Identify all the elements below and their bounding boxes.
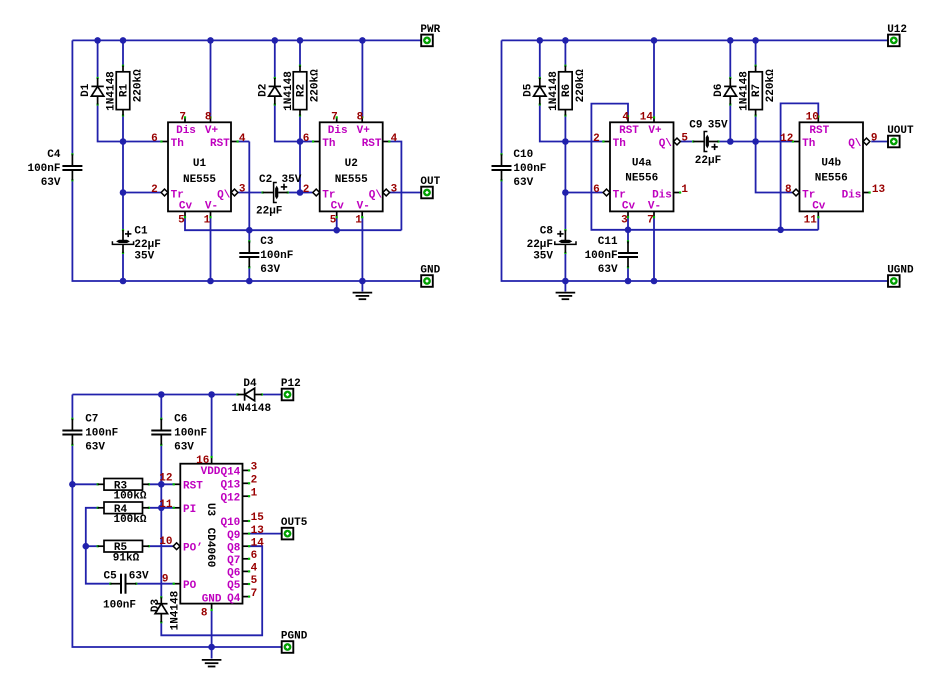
capacitor C2 (262, 183, 289, 203)
svg-text:7: 7 (647, 215, 654, 227)
wire VDD top (72, 394, 237, 396)
svg-text:3: 3 (251, 462, 258, 474)
op-amp U4a NE556 (602, 115, 681, 218)
wire to ground symbol PGND (211, 647, 213, 659)
svg-text:63V: 63V (598, 264, 618, 276)
wire C10 top (501, 40, 503, 154)
svg-text:12: 12 (780, 133, 793, 145)
svg-text:OUT5: OUT5 (281, 517, 308, 529)
svg-text:Q5: Q5 (227, 580, 241, 592)
svg-text:Dis: Dis (328, 125, 348, 137)
junction (727, 138, 734, 145)
capacitor C5 (103, 570, 149, 611)
svg-text:PWR: PWR (420, 24, 440, 36)
op-amp U2 NE555 pin Q diamond (383, 189, 390, 196)
svg-text:RST: RST (183, 481, 203, 493)
junction (297, 189, 304, 196)
connector pad OUT5 (281, 517, 308, 539)
junction (537, 37, 544, 44)
svg-text:3: 3 (621, 215, 628, 227)
wire D2 to Th node U2 (275, 105, 300, 142)
resistor R7 (749, 65, 777, 117)
junction (752, 37, 759, 44)
svg-text:Q6: Q6 (227, 568, 240, 580)
svg-text:63V: 63V (85, 442, 105, 454)
svg-text:C10: C10 (513, 149, 533, 161)
wire C7 top (71, 395, 73, 421)
op-amp U4b NE556 pin Tr diamond (793, 189, 800, 196)
U3 pin numbers (159, 455, 264, 619)
op-amp U4b NE556 pin Q diamond (863, 138, 870, 145)
svg-text:63V: 63V (260, 264, 280, 276)
svg-text:10: 10 (159, 536, 172, 548)
svg-text:D6: D6 (713, 84, 725, 97)
wire R6 bottom (564, 116, 566, 142)
wire C1 to GND bus (122, 253, 124, 281)
svg-text:4: 4 (251, 563, 258, 575)
capacitor C4 (27, 149, 82, 189)
svg-text:Cv: Cv (812, 200, 826, 212)
svg-text:D1: D1 (80, 83, 92, 97)
svg-text:22µF: 22µF (256, 206, 282, 218)
svg-text:U2: U2 (345, 158, 358, 170)
svg-text:PI: PI (183, 504, 196, 516)
svg-text:8: 8 (205, 111, 212, 123)
svg-text:UGND: UGND (887, 264, 914, 276)
wire R5 to PO' (148, 545, 173, 547)
wire C2 to node (288, 192, 300, 194)
svg-text:1N4148: 1N4148 (231, 403, 271, 415)
wire D6 bottom (729, 105, 731, 142)
svg-text:4: 4 (239, 133, 246, 145)
diode D3 (150, 590, 182, 630)
op-amp U1 NE555 pin names (171, 125, 231, 213)
junction (158, 391, 165, 398)
resistor R4 (97, 502, 150, 526)
wire node Th U4a (565, 141, 603, 143)
svg-text:4: 4 (622, 111, 629, 123)
junction (120, 138, 127, 145)
wire to ground symbol UGND (564, 281, 566, 292)
svg-text:Th: Th (171, 138, 184, 150)
svg-text:8: 8 (201, 607, 208, 619)
op-amp U2 NE555 (312, 116, 390, 218)
wire V+ U1 (210, 40, 212, 117)
svg-text:1: 1 (204, 215, 211, 227)
op-amp U4a NE556 pin Tr diamond (603, 189, 610, 196)
svg-text:V+: V+ (357, 125, 371, 137)
svg-text:6: 6 (251, 550, 258, 562)
capacitor C10 (492, 149, 547, 189)
junction (120, 37, 127, 44)
svg-text:C1: C1 (134, 226, 148, 238)
resistor R5 (97, 540, 150, 564)
wire D4 to P12 pad (263, 394, 282, 396)
svg-text:NE556: NE556 (815, 173, 848, 185)
junction (272, 37, 279, 44)
junction (94, 37, 101, 44)
op-amp U4a NE556 value labels (625, 157, 658, 184)
diode D6 (713, 71, 750, 111)
junction (246, 278, 253, 285)
svg-text:NE555: NE555 (183, 174, 216, 186)
svg-text:9: 9 (162, 574, 169, 586)
svg-text:220kΩ: 220kΩ (765, 69, 777, 102)
wire C11 bottom (627, 268, 629, 282)
svg-text:U3: U3 (204, 503, 216, 517)
svg-text:2: 2 (151, 184, 158, 196)
svg-text:100nF: 100nF (85, 428, 118, 440)
junction (297, 138, 304, 145)
svg-text:13: 13 (251, 525, 265, 537)
svg-text:PGND: PGND (281, 630, 308, 642)
op-amp U1 NE555 pin numbers (151, 111, 246, 226)
svg-text:R6: R6 (561, 84, 573, 97)
svg-text:1: 1 (355, 215, 362, 227)
junction (752, 138, 759, 145)
wire Q U4a to C9 (681, 141, 694, 143)
svg-text:P12: P12 (281, 378, 301, 390)
svg-text:NE556: NE556 (625, 173, 658, 185)
wire D6 top (729, 40, 731, 78)
wire UGND bus (502, 180, 888, 281)
svg-text:U1: U1 (193, 158, 207, 170)
svg-text:Q\: Q\ (217, 189, 231, 201)
op-amp U4b NE556 (792, 115, 871, 218)
wire V+ U2 (361, 40, 363, 117)
junction (562, 37, 569, 44)
svg-text:C2: C2 (259, 174, 272, 186)
wire node Tr U4b (756, 142, 793, 193)
svg-text:7: 7 (251, 588, 258, 600)
svg-text:UOUT: UOUT (887, 125, 914, 137)
diode D5 (522, 71, 559, 111)
svg-text:VDD: VDD (201, 466, 221, 478)
svg-text:C8: C8 (540, 226, 554, 238)
svg-text:V-: V- (648, 200, 661, 212)
wire C8 top (564, 193, 566, 230)
wire R1 top (122, 40, 124, 65)
svg-text:C5: C5 (104, 570, 118, 582)
wire R5 left (86, 545, 98, 547)
svg-text:Q7: Q7 (227, 555, 240, 567)
svg-text:22µF: 22µF (695, 155, 721, 167)
svg-text:C9: C9 (689, 119, 702, 131)
wire UOUT net (871, 141, 887, 143)
wire D3 to Q8 (161, 546, 262, 635)
svg-text:35V: 35V (134, 251, 154, 263)
svg-text:100nF: 100nF (103, 600, 136, 612)
capacitor C9 (692, 132, 719, 152)
svg-text:D2: D2 (257, 84, 269, 97)
junction (246, 227, 253, 234)
wire node Th U2 (300, 141, 313, 143)
op-amp U1 NE555 pin Tr diamond (161, 189, 168, 196)
svg-text:R7: R7 (751, 84, 763, 97)
svg-text:7: 7 (179, 111, 186, 123)
svg-text:100nF: 100nF (585, 250, 618, 262)
junction (562, 189, 569, 196)
wire C8 bottom (564, 253, 566, 281)
wire Cv U4b down (817, 217, 819, 230)
connector pad PGND (281, 630, 308, 652)
capacitor C3 (239, 236, 293, 276)
svg-text:3: 3 (391, 183, 398, 195)
junction (158, 505, 165, 512)
wire U12 bus (502, 39, 888, 41)
svg-text:D5: D5 (522, 83, 534, 97)
junction (651, 278, 658, 285)
svg-text:3: 3 (239, 183, 246, 195)
svg-text:100kΩ: 100kΩ (113, 491, 146, 503)
wire R2 bottom (299, 116, 301, 193)
svg-text:100nF: 100nF (27, 163, 60, 175)
svg-text:Q9: Q9 (227, 530, 240, 542)
op-amp U1 NE555 (160, 116, 238, 218)
svg-text:Dis: Dis (842, 189, 862, 201)
wire VDD pin16 (211, 395, 213, 458)
svg-text:C3: C3 (260, 236, 274, 248)
wire node Tr U1 (123, 192, 161, 194)
junction (120, 278, 127, 285)
svg-text:Th: Th (802, 138, 815, 150)
junction (207, 37, 214, 44)
svg-text:U4a: U4a (632, 157, 652, 169)
svg-text:Q4: Q4 (227, 593, 241, 605)
svg-text:D3: D3 (150, 599, 162, 613)
svg-text:6: 6 (303, 133, 310, 145)
diode D1 (80, 71, 117, 111)
op-amp U4a NE556 pin names (613, 125, 673, 213)
svg-text:11: 11 (804, 215, 818, 227)
U3 value labels (204, 503, 216, 567)
op-amp U4a NE556 pin numbers (593, 111, 688, 226)
op-amp U4b NE556 pin numbers (780, 111, 885, 226)
svg-text:100nF: 100nF (260, 250, 293, 262)
junction (359, 37, 366, 44)
wire R2 top (299, 40, 301, 65)
junction (359, 278, 366, 285)
svg-text:12: 12 (159, 473, 172, 485)
wire Cv/RST mid bus (185, 217, 401, 230)
wire C3 bottom (248, 268, 250, 282)
wire OUT net (390, 192, 421, 194)
wire R4 to PI (148, 507, 174, 509)
svg-text:D4: D4 (243, 378, 257, 390)
wire R6 top (564, 40, 566, 65)
junction (333, 227, 340, 234)
wire node Th U1 (123, 141, 161, 143)
svg-text:C7: C7 (85, 414, 98, 426)
svg-text:C11: C11 (598, 236, 618, 248)
wire GND bus (72, 180, 420, 281)
resistor R1 (116, 65, 144, 117)
wire R7 top (755, 40, 757, 65)
wire R3 left (72, 483, 97, 485)
capacitor C11 (585, 236, 638, 276)
wire D1 top (97, 40, 99, 78)
wire D1 to Th node (98, 105, 123, 142)
svg-text:220kΩ: 220kΩ (132, 69, 144, 102)
svg-text:V+: V+ (205, 125, 219, 137)
svg-text:Q13: Q13 (220, 480, 240, 492)
svg-text:35V: 35V (708, 119, 728, 131)
wire node Tr U2 (300, 192, 313, 194)
svg-text:Q10: Q10 (220, 517, 240, 529)
wire V- U2 to GND bus (361, 217, 363, 281)
wire C6 top (160, 395, 162, 421)
junction (69, 481, 76, 488)
svg-text:35V: 35V (533, 251, 553, 263)
svg-text:5: 5 (251, 575, 258, 587)
svg-text:RST: RST (809, 125, 829, 137)
wire RST U2 down (389, 142, 402, 231)
op-amp U2 NE555 value labels (335, 158, 368, 186)
wire RST U1 stub (237, 141, 249, 143)
svg-text:2: 2 (251, 475, 258, 487)
svg-text:6: 6 (593, 184, 600, 196)
svg-text:220kΩ: 220kΩ (309, 69, 321, 102)
junction (208, 644, 215, 651)
wire RST U1 down (248, 142, 250, 231)
svg-text:5: 5 (330, 215, 337, 227)
svg-text:Dis: Dis (652, 189, 672, 201)
U3 pin PO' diamond (173, 543, 180, 550)
op-amp U2 NE555 pin names (322, 125, 382, 213)
svg-text:11: 11 (159, 499, 173, 511)
connector pad GND (420, 264, 440, 286)
junction (120, 189, 127, 196)
junction (625, 278, 632, 285)
wire R1 bottom to C1 (122, 116, 124, 230)
junction (727, 37, 734, 44)
svg-text:PO’: PO’ (183, 542, 203, 554)
svg-text:C6: C6 (174, 414, 187, 426)
wire PWR bus (72, 39, 420, 41)
svg-text:Th: Th (613, 138, 626, 150)
op-amp U4a NE556 pin Q diamond (674, 138, 681, 145)
svg-text:100kΩ: 100kΩ (113, 514, 146, 526)
junction (777, 227, 784, 234)
svg-text:5: 5 (681, 132, 688, 144)
svg-text:63V: 63V (129, 570, 149, 582)
wire GND pin8 (211, 610, 213, 647)
wire C11 top (627, 230, 629, 244)
junction (562, 138, 569, 145)
U3 pin names (183, 466, 241, 605)
svg-text:63V: 63V (174, 442, 194, 454)
svg-text:OUT: OUT (420, 176, 440, 188)
diode D4 (231, 378, 271, 415)
svg-text:100nF: 100nF (513, 163, 546, 175)
svg-text:GND: GND (420, 264, 440, 276)
wire RST U4a loop (591, 104, 818, 230)
resistor R3 (97, 479, 150, 503)
svg-text:35V: 35V (282, 174, 302, 186)
junction (208, 391, 215, 398)
svg-text:V+: V+ (648, 125, 662, 137)
wire Cv U4a down (627, 217, 629, 230)
wire D5 top (539, 40, 541, 78)
wire RST U4b loop (781, 103, 819, 229)
svg-text:Dis: Dis (176, 125, 196, 137)
wire R3 to RST (148, 483, 174, 485)
svg-text:Q\: Q\ (369, 189, 383, 201)
op-amp U4b NE556 pin names (802, 125, 862, 213)
junction (158, 481, 165, 488)
svg-text:1: 1 (251, 487, 258, 499)
wire Q9 to OUT5 pad (249, 533, 281, 535)
wire Q U1 to C2 (238, 192, 262, 194)
svg-text:15: 15 (251, 512, 265, 524)
svg-text:R2: R2 (296, 84, 308, 97)
op-amp U1 NE555 value labels (183, 158, 216, 186)
svg-text:U4b: U4b (821, 157, 841, 169)
capacitor C1 (112, 226, 160, 263)
svg-text:22µF: 22µF (527, 239, 553, 251)
svg-text:14: 14 (640, 111, 654, 123)
svg-text:RST: RST (210, 138, 230, 150)
op-amp U1 NE555 pin Q diamond (231, 189, 238, 196)
wire PGND bus (72, 445, 281, 647)
connector pad P12 (281, 378, 301, 400)
svg-text:CD4060: CD4060 (204, 528, 216, 568)
IC U3 CD4060 (173, 456, 251, 611)
junction (562, 278, 569, 285)
ground symbol GND (353, 293, 373, 300)
svg-text:Q12: Q12 (220, 492, 240, 504)
svg-text:7: 7 (331, 111, 338, 123)
svg-text:Cv: Cv (331, 200, 345, 212)
svg-text:RST: RST (362, 138, 382, 150)
svg-text:2: 2 (303, 184, 310, 196)
resistor R2 (293, 65, 321, 117)
svg-text:6: 6 (151, 133, 158, 145)
wire R4 left loop (86, 508, 111, 584)
op-amp U2 NE555 pin Tr diamond (313, 189, 320, 196)
svg-text:R1: R1 (119, 84, 131, 98)
wire D5 to Th node (540, 105, 566, 142)
svg-text:PO: PO (183, 580, 197, 592)
svg-text:C4: C4 (47, 149, 61, 161)
op-amp U2 NE555 pin numbers (303, 111, 398, 226)
op-amp U4b NE556 value labels (815, 157, 848, 184)
svg-text:4: 4 (391, 133, 398, 145)
svg-text:1: 1 (681, 184, 688, 196)
svg-text:V-: V- (357, 200, 370, 212)
svg-text:Q\: Q\ (848, 138, 862, 150)
capacitor C6 (151, 414, 207, 454)
wire V- U1 to GND bus (210, 217, 212, 281)
svg-text:Q\: Q\ (659, 138, 673, 150)
svg-text:8: 8 (357, 111, 364, 123)
svg-text:Q14: Q14 (220, 467, 240, 479)
svg-text:RST: RST (619, 125, 639, 137)
svg-text:Th: Th (322, 138, 335, 150)
wire C3 top (248, 230, 250, 243)
svg-text:V-: V- (205, 200, 218, 212)
connector pad UGND (887, 264, 914, 286)
wire C4 top (71, 40, 73, 154)
svg-text:91kΩ: 91kΩ (113, 552, 140, 564)
wire V+ U4a (653, 40, 655, 117)
svg-text:63V: 63V (513, 177, 533, 189)
wire D2 top (274, 40, 276, 78)
connector pad OUT (420, 176, 440, 198)
wire Cv U2 down (336, 217, 338, 230)
junction (83, 543, 90, 550)
svg-text:220kΩ: 220kΩ (575, 69, 587, 102)
